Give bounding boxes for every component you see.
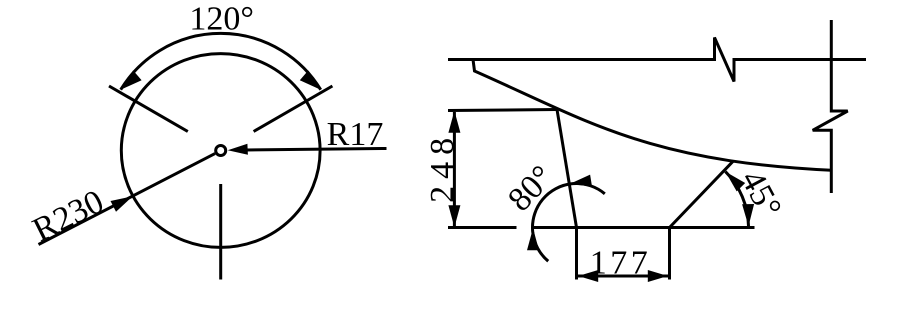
R17 arrowhead xyxy=(228,144,248,155)
bottom object line xyxy=(533,226,755,229)
svg-text:45°: 45° xyxy=(733,164,788,223)
177 right extension line xyxy=(668,228,671,280)
80 deg dimension arc with tails xyxy=(532,183,604,261)
248 top extension line xyxy=(448,110,557,111)
bottom extension line left segment xyxy=(448,226,517,229)
177 left extension line xyxy=(575,228,578,280)
45 deg lower arrowhead xyxy=(742,204,754,226)
248 dimension line xyxy=(453,112,456,227)
svg-text:R17: R17 xyxy=(327,116,384,153)
groove right edge 45 deg line xyxy=(670,161,734,227)
svg-text:R230: R230 xyxy=(27,183,109,249)
177 right arrowhead xyxy=(648,270,668,282)
top object line with break symbol xyxy=(448,38,866,82)
248 top arrowhead xyxy=(448,111,460,133)
concave profile curve xyxy=(473,60,831,171)
main circle xyxy=(121,54,320,248)
vertical center line below circle xyxy=(219,184,222,280)
177 left arrowhead xyxy=(578,270,598,282)
svg-text:120°: 120° xyxy=(189,1,254,38)
R17 leader line xyxy=(246,149,387,151)
center hole circle xyxy=(216,146,226,156)
svg-text:177: 177 xyxy=(590,244,652,281)
120 deg left arrowhead xyxy=(121,70,142,89)
right radial line of 120 deg angle xyxy=(254,86,333,132)
248 bottom arrowhead xyxy=(448,205,460,227)
left radial line of 120 deg angle xyxy=(109,86,188,132)
80 deg lower arrowhead xyxy=(527,228,539,250)
R230 leader line xyxy=(39,154,216,245)
svg-text:80°: 80° xyxy=(501,159,561,219)
right vertical object line with break symbol xyxy=(813,20,848,193)
80 deg upper arrowhead xyxy=(569,175,592,187)
groove left edge 80 deg line xyxy=(557,110,577,228)
177 dimension line xyxy=(578,275,668,278)
120 deg right arrowhead xyxy=(300,70,321,89)
45 deg upper arrowhead xyxy=(725,172,745,192)
45 deg dimension arc xyxy=(725,172,748,227)
svg-text:248: 248 xyxy=(424,131,461,203)
120 deg dimension arc xyxy=(121,33,321,89)
R230 arrowhead xyxy=(111,196,133,212)
